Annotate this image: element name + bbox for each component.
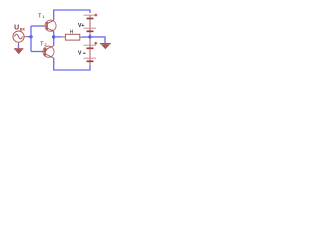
wire: T2 base lead	[31, 51, 45, 53]
label T2	[40, 42, 46, 48]
svg-text:вх: вх	[20, 27, 26, 32]
battery V+ cell 1	[84, 15, 97, 19]
wire: T1 collector to V+ rail	[54, 10, 90, 20]
wire: T1 base lead	[31, 25, 47, 27]
svg-text:U: U	[14, 24, 19, 31]
battery V- cell 1	[84, 38, 97, 48]
wire: emitter output vertical	[53, 32, 55, 46]
svg-text:V: V	[78, 51, 82, 57]
svg-text:H: H	[70, 30, 74, 36]
wire: battery to mid node	[89, 34, 91, 37]
ground (supply side, arrow style)	[100, 44, 111, 50]
transistor T1 (NPN)	[45, 20, 56, 32]
node: output junction	[52, 35, 55, 38]
wire: V- battery to bottom rail to T2 collector	[54, 58, 90, 70]
wire: resistor to mid node	[80, 36, 90, 38]
plus sign V+	[95, 14, 98, 17]
svg-text:1: 1	[42, 15, 44, 19]
svg-text:V+: V+	[78, 23, 84, 29]
wire: mid node to right ground	[90, 37, 105, 43]
node: base bus junction	[29, 35, 32, 38]
label T1	[38, 14, 44, 20]
resistor RH (load)	[65, 34, 79, 40]
node: mid supply junction	[88, 35, 91, 38]
ground (input side, arrow style)	[14, 49, 23, 55]
svg-text:2: 2	[44, 43, 46, 47]
battery V+ cell 2	[84, 19, 97, 35]
wire: base bus vertical	[30, 26, 32, 52]
plus sign V-	[94, 42, 97, 45]
wire: source to ground stub	[18, 42, 20, 44]
wire: output to load resistor	[54, 36, 66, 38]
source U_bx (sine voltage source)	[13, 31, 24, 42]
label U_bx	[14, 24, 25, 31]
transistor T2 (PNP)	[43, 46, 54, 58]
battery V- cell 2	[84, 48, 97, 66]
wire: input source to base bus	[24, 36, 31, 38]
